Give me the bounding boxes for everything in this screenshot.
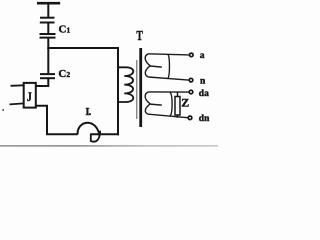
- wire Z top stub: [177, 92, 179, 97]
- wire: [47, 23, 49, 34]
- terminal dn: [188, 116, 192, 120]
- wire: [47, 38, 49, 49]
- secondary winding 2 right arc: [170, 92, 172, 115]
- wire: [36, 78, 49, 86]
- secondary winding 2 middle dash: [150, 104, 162, 105]
- svg-text:T: T: [136, 27, 142, 43]
- crossover hop: [78, 123, 100, 137]
- crossing loop below wire: [91, 131, 100, 142]
- svg-text:I.: I.: [85, 107, 91, 118]
- transformer core thick bar: [139, 48, 142, 127]
- terminal da: [189, 90, 193, 94]
- terminal a: [190, 53, 194, 57]
- relay J: [24, 83, 36, 108]
- terminal n: [189, 78, 193, 82]
- capacitor (upper unlabeled): [40, 18, 55, 23]
- wire a lead: [149, 54, 189, 55]
- wire dn lead: [149, 114, 188, 118]
- ink speck: [2, 109, 4, 111]
- capacitor C2: [40, 74, 55, 78]
- contact stub bottom-left: [10, 103, 24, 104]
- wire n lead: [149, 77, 189, 80]
- wire: [47, 3, 49, 17]
- svg-text:C1: C1: [59, 24, 71, 36]
- node junction / top wire: [47, 47, 119, 49]
- secondary winding 1 middle dash: [150, 66, 162, 67]
- svg-text:n: n: [200, 77, 206, 87]
- wire: [91, 133, 119, 135]
- secondary winding 2 left waist: [145, 92, 150, 114]
- antenna top plate bar: [37, 2, 60, 5]
- contact stub top-left: [11, 84, 24, 87]
- svg-text:a: a: [200, 51, 205, 61]
- svg-text:C2: C2: [58, 68, 70, 80]
- wire da lead: [149, 91, 189, 93]
- svg-text:J: J: [27, 90, 32, 105]
- secondary winding 1 left waist: [145, 54, 150, 77]
- svg-text:da: da: [199, 89, 209, 99]
- load Z box: [175, 97, 180, 116]
- secondary winding 1 right arc: [168, 54, 170, 78]
- transformer primary winding: [118, 67, 133, 102]
- wire: [47, 48, 49, 73]
- svg-text:dn: dn: [199, 114, 210, 124]
- wire primary left vertical: [117, 47, 119, 135]
- transformer core thin bar: [136, 60, 138, 119]
- capacitor C1: [40, 34, 56, 38]
- svg-text:Z: Z: [181, 96, 189, 110]
- wire Z bottom stub: [177, 115, 179, 118]
- wire: [36, 106, 78, 135]
